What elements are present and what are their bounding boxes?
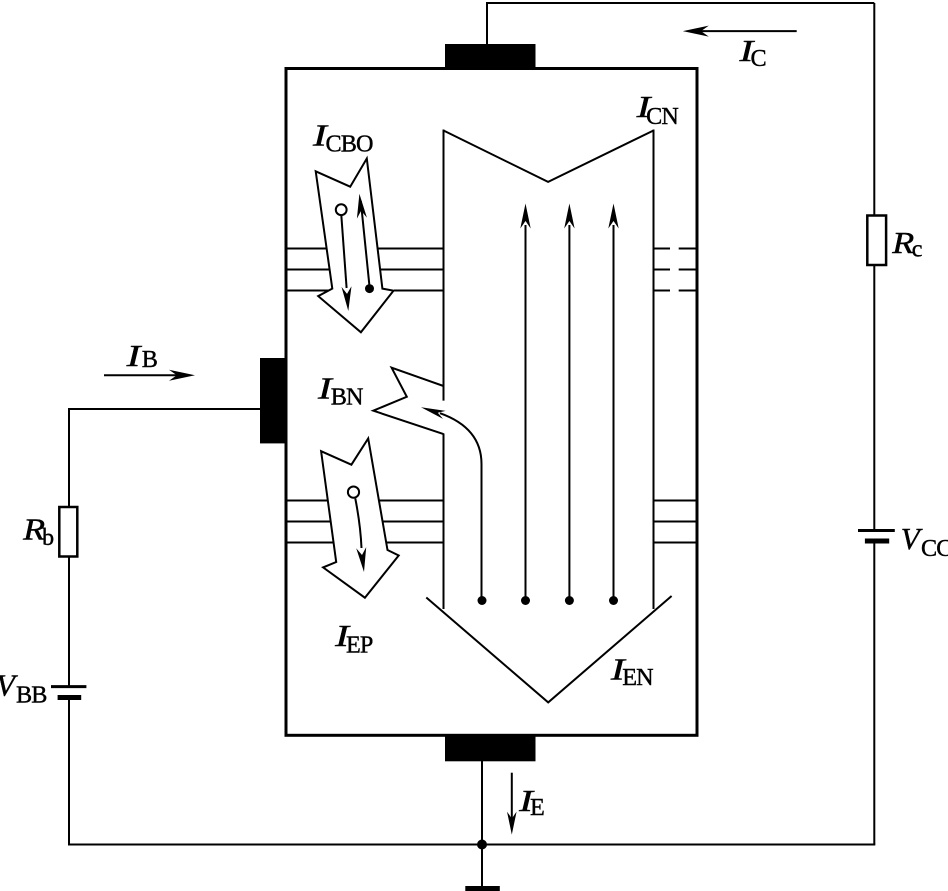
svg-text:BB: BB xyxy=(16,682,46,709)
svg-text:C: C xyxy=(751,45,766,72)
svg-text:B: B xyxy=(142,346,157,373)
svg-text:I: I xyxy=(125,338,142,373)
svg-text:CC: CC xyxy=(921,535,948,562)
svg-text:CBO: CBO xyxy=(326,131,373,158)
svg-text:EP: EP xyxy=(346,632,373,659)
svg-text:V: V xyxy=(901,521,923,556)
svg-text:E: E xyxy=(530,794,544,821)
svg-text:EN: EN xyxy=(622,664,653,691)
svg-text:b: b xyxy=(42,524,54,551)
svg-text:c: c xyxy=(912,236,922,263)
svg-text:CN: CN xyxy=(646,103,678,130)
svg-text:BN: BN xyxy=(331,384,363,411)
